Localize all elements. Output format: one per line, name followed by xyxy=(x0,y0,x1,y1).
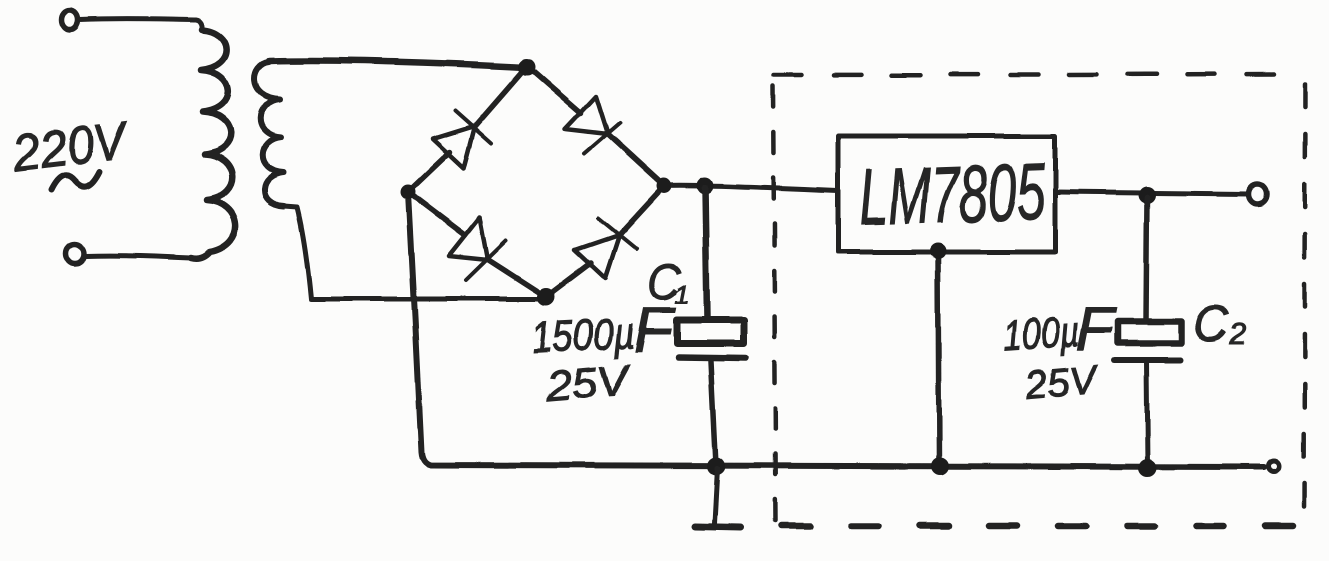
label 1500uF xyxy=(530,294,677,366)
svg-text:2: 2 xyxy=(1229,318,1247,351)
transformer secondary winding xyxy=(255,62,284,206)
node: junction regulator ground at rail xyxy=(931,457,949,475)
node: bridge top xyxy=(519,59,536,76)
terminal: AC input top xyxy=(62,11,78,30)
diode D1 (top node to right node) xyxy=(565,96,620,154)
wire: bridge top-left edge (cathode side) xyxy=(474,66,527,127)
dashed enclosure: top edge xyxy=(774,74,1303,75)
wire: secondary bottom down and right to bridge bottom node xyxy=(284,206,545,299)
wire: C1 bottom lead xyxy=(711,361,716,465)
svg-text:F: F xyxy=(1076,295,1117,364)
label C1 xyxy=(648,255,690,310)
dashed enclosure: bottom edge xyxy=(782,523,1310,530)
capacitor C1 positive plate xyxy=(677,320,744,343)
wire: C2 bottom lead xyxy=(1146,361,1147,466)
node: bridge bottom xyxy=(537,288,555,306)
wire: C1 top lead xyxy=(705,188,707,318)
wire: bridge negative (left node) down to ground rail, then rail to output xyxy=(408,193,1264,467)
capacitor C2 negative plate xyxy=(1115,357,1180,363)
wire: bridge bottom-right edge (anode side) xyxy=(546,263,591,297)
wire: regulator output to + terminal xyxy=(1055,192,1249,194)
wire: bridge bottom-left edge (cathode side) xyxy=(487,259,546,297)
diode D4 (left node to bottom node) xyxy=(449,217,506,280)
wire: bridge top-right edge (cathode side) xyxy=(607,134,664,186)
svg-text:C: C xyxy=(1193,296,1230,352)
wire: bridge bottom-right edge (cathode side) xyxy=(618,186,664,236)
terminal: output - xyxy=(1269,461,1280,472)
node: junction at C1 top xyxy=(697,178,714,195)
diode D3 (left node to top node) xyxy=(433,111,491,168)
node: bridge left xyxy=(401,185,416,200)
wire: C2 top lead xyxy=(1146,197,1147,321)
svg-text:1500µ: 1500µ xyxy=(530,309,636,363)
terminal: AC input bottom xyxy=(66,245,84,264)
wire: bridge top-left edge (anode side) xyxy=(408,152,450,192)
wire: bridge top-right edge (anode side) xyxy=(527,66,581,113)
node: bridge right xyxy=(657,179,672,194)
wire: bridge positive output to regulator input xyxy=(664,186,838,191)
node: regulator ground pin xyxy=(930,243,946,259)
label 100uF xyxy=(1002,295,1117,364)
label C2 xyxy=(1193,296,1247,352)
wire: regulator ground pin down to rail xyxy=(938,252,939,465)
svg-text:F: F xyxy=(634,294,677,366)
wire: bridge bottom-left edge (anode side) xyxy=(408,192,465,235)
terminal: output + xyxy=(1249,184,1267,204)
wire: bottom AC lead xyxy=(86,256,191,258)
wire: secondary top to bridge top node xyxy=(269,60,526,67)
wire: top AC lead into primary xyxy=(79,19,202,30)
node: junction C2 at rail xyxy=(1138,459,1156,477)
wire: stub to ground symbol xyxy=(714,468,717,523)
svg-text:100µ: 100µ xyxy=(1002,307,1081,359)
node: junction at C2 top xyxy=(1139,187,1156,204)
capacitor C2 positive plate xyxy=(1118,321,1181,343)
AC sine symbol ~ xyxy=(51,171,99,190)
dashed enclosure: left edge xyxy=(773,86,776,521)
transformer primary winding xyxy=(191,30,236,259)
capacitor C1 negative plate xyxy=(678,357,746,358)
svg-text:25V: 25V xyxy=(543,355,634,409)
dashed enclosure: right edge xyxy=(1304,84,1305,522)
node: junction C1 at ground rail xyxy=(707,457,725,475)
diode D2 (bottom node to right node) xyxy=(575,218,636,278)
svg-text:LM7805: LM7805 xyxy=(857,147,1046,242)
regulator U1 LM7805 box xyxy=(838,136,1055,252)
svg-text:1: 1 xyxy=(675,279,689,309)
ground xyxy=(694,526,741,527)
svg-text:25V: 25V xyxy=(1023,358,1101,408)
